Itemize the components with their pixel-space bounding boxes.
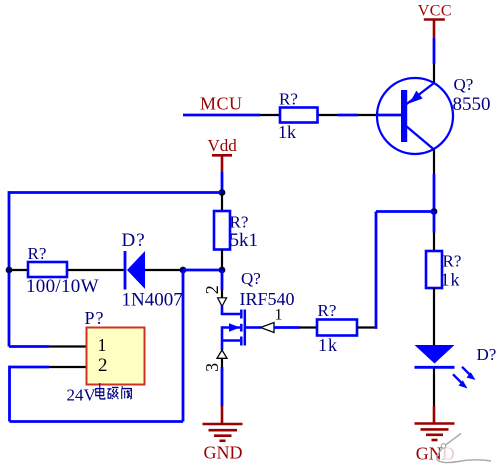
svg-text:R?: R? (28, 244, 47, 263)
wire (182, 270, 185, 422)
mosfet Q? IRF540 (202, 285, 274, 372)
wire (183, 114, 260, 117)
watermark scribble (437, 434, 491, 463)
LED D? (415, 345, 476, 389)
channel bar bottom (240, 337, 243, 346)
junction (180, 267, 187, 274)
label 磁 (CJK glyph) (107, 387, 118, 398)
svg-text:Q?: Q? (241, 269, 261, 288)
wire (8, 191, 11, 346)
wire (221, 358, 223, 367)
wire (338, 114, 358, 117)
label 阀 (CJK glyph) (122, 386, 132, 399)
svg-text:IRF540: IRF540 (240, 289, 295, 309)
svg-text:Q?: Q? (454, 75, 474, 94)
svg-text:2: 2 (202, 285, 222, 294)
svg-text:5k1: 5k1 (230, 230, 259, 251)
junction (431, 208, 438, 215)
ground GND (right) (415, 406, 455, 463)
source wire (222, 339, 240, 342)
wire (221, 270, 224, 290)
resistor R? 100/10W (9, 262, 124, 277)
wire (10, 366, 50, 369)
diode D? 1N4007 (125, 251, 183, 290)
svg-text:R?: R? (230, 213, 249, 232)
pin 1 direction arrow (261, 323, 275, 333)
resistor R? (base) (260, 108, 338, 123)
wire (274, 326, 300, 329)
svg-text:VCC: VCC (418, 2, 452, 19)
wire (433, 212, 436, 233)
connector P? 24V solenoid (49, 328, 145, 385)
wire (9, 191, 222, 194)
junction (219, 189, 226, 196)
wire (221, 172, 224, 193)
svg-text:MCU: MCU (200, 93, 243, 113)
gate wire (246, 326, 261, 329)
svg-text:D?: D? (122, 230, 146, 251)
gate line (244, 310, 247, 346)
wire (9, 345, 49, 348)
svg-text:3: 3 (202, 363, 222, 372)
svg-text:Vdd: Vdd (208, 136, 238, 155)
resistor R? (collector 1k) (426, 233, 442, 346)
ground GND (middle) (203, 406, 243, 463)
transistor Q? 8550 (358, 64, 453, 174)
junction (219, 267, 226, 274)
pin 2 direction arrow (218, 298, 227, 307)
svg-text:1: 1 (275, 307, 283, 324)
svg-text:100/10W: 100/10W (26, 276, 99, 297)
svg-text:R?: R? (318, 301, 337, 320)
channel bar middle (240, 324, 243, 332)
resistor R? 5k1 (214, 193, 230, 271)
wire (8, 366, 11, 422)
svg-text:D?: D? (477, 345, 497, 364)
wire (10, 420, 184, 423)
svg-text:P?: P? (85, 308, 105, 328)
pin 3 direction arrow (217, 350, 227, 358)
svg-text:GND: GND (204, 443, 243, 463)
wire (376, 210, 434, 213)
wire (433, 38, 436, 64)
drain wire (222, 306, 240, 315)
svg-text:1k: 1k (278, 122, 296, 142)
svg-text:1: 1 (98, 335, 107, 355)
junction (6, 267, 13, 274)
wire (183, 269, 222, 272)
svg-text:1k: 1k (318, 335, 338, 355)
svg-text:1N4007: 1N4007 (122, 289, 183, 310)
svg-text:1k: 1k (441, 270, 461, 290)
wire (433, 174, 436, 212)
resistor R? (gate 1k) (300, 320, 375, 336)
bulk wire with arrow (222, 326, 240, 329)
svg-text:8550: 8550 (453, 94, 491, 115)
power symbol VCC (418, 2, 452, 38)
svg-text:2: 2 (98, 355, 108, 376)
svg-text:R?: R? (443, 252, 462, 271)
wire (375, 212, 378, 329)
label 电 (CJK glyph) (96, 383, 105, 399)
power symbol Vdd (208, 136, 238, 172)
wire (433, 369, 435, 407)
svg-text:24V: 24V (67, 386, 97, 405)
svg-text:R?: R? (279, 90, 298, 109)
channel bar top (240, 310, 243, 319)
